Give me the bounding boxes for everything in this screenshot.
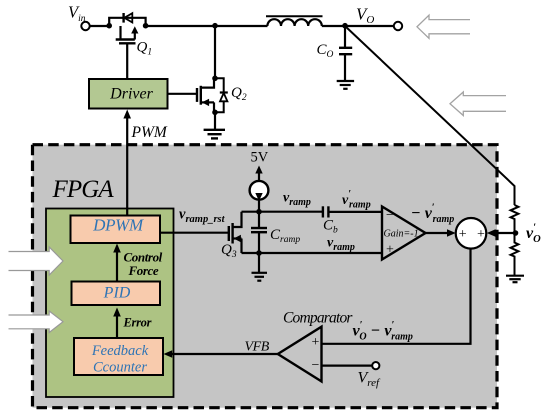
wire Vref to comparator minus: [322, 365, 373, 367]
svg-text:VO: VO: [356, 5, 374, 27]
comparator: [278, 327, 322, 382]
resistor divider upper: [511, 205, 519, 233]
diode D1 bypass: [109, 13, 145, 26]
svg-text:Error: Error: [123, 315, 152, 329]
wire summer to comparator plus: [322, 249, 471, 344]
Driver box: [89, 79, 168, 109]
capacitor Cb: [323, 206, 382, 217]
svg-text:Q2: Q2: [231, 85, 247, 103]
svg-text:Vin: Vin: [68, 3, 86, 25]
svg-text:+: +: [386, 243, 394, 258]
wire comparator output VFB with arrow: [164, 350, 278, 357]
svg-text:+: +: [477, 227, 485, 242]
terminal Vref: [372, 362, 379, 369]
label Control Force: [124, 250, 163, 279]
arrow Control Force (PID to DPWM): [113, 244, 121, 282]
body diode Q2: [215, 78, 228, 112]
current source 5V: [250, 166, 269, 212]
wire driver to Q2 gate: [168, 93, 197, 95]
transistor Q3: [160, 212, 242, 253]
arrow Error (Feedback to PID): [113, 308, 121, 339]
block PID: [72, 282, 161, 306]
junction ramp bottom: [256, 250, 262, 256]
white block arrow into FPGA lower: [9, 311, 64, 333]
junction Vo node: [342, 23, 348, 29]
amplifier Gain=-1: [382, 207, 426, 260]
junction node vo': [513, 230, 519, 236]
junction ramp top: [256, 209, 262, 215]
ground under Q2: [204, 112, 225, 138]
block Feedback Ccounter: [74, 338, 163, 375]
wire Vo node to terminal: [345, 25, 394, 27]
svg-text:Feedback: Feedback: [91, 343, 149, 359]
ground under Co: [337, 81, 354, 89]
block DPWM: [71, 215, 161, 243]
transistor Q1: [116, 26, 139, 78]
svg-text:−: −: [386, 208, 394, 223]
junction: [143, 23, 149, 29]
FPGA box: [33, 145, 498, 408]
wire L to Vo node: [322, 25, 345, 27]
svg-text:VFB: VFB: [245, 340, 270, 355]
wire bottom rail v_ramp: [242, 252, 383, 254]
svg-text:+: +: [459, 227, 467, 242]
wire feedback diagonal: [345, 26, 515, 205]
terminal Vin: [81, 22, 89, 30]
svg-text:Comparator: Comparator: [283, 309, 353, 326]
svg-text:PID: PID: [103, 285, 131, 302]
summing junction: [456, 218, 487, 249]
svg-text:PWM: PWM: [131, 124, 168, 141]
green logic box: [46, 209, 174, 398]
svg-text:DPWM: DPWM: [92, 215, 144, 234]
svg-text:v′O: v′O: [526, 223, 541, 246]
svg-text:CO: CO: [317, 42, 334, 60]
transistor Q2: [197, 26, 218, 115]
capacitor Cramp: [251, 212, 267, 253]
svg-text:Driver: Driver: [109, 86, 153, 103]
ground under Cramp: [252, 253, 268, 281]
svg-text:FPGA: FPGA: [52, 176, 115, 203]
white block arrow into FPGA upper: [9, 247, 64, 275]
capacitor Co: [339, 26, 352, 81]
svg-text:Gain=-1: Gain=-1: [384, 229, 419, 240]
svg-text:Ccounter: Ccounter: [93, 359, 147, 375]
junction switch node: [212, 23, 218, 29]
resistor divider lower: [511, 233, 519, 276]
svg-text:Q1: Q1: [137, 39, 153, 57]
terminal Vo: [394, 22, 402, 30]
svg-text:+: +: [312, 335, 320, 350]
ground under divider: [506, 276, 524, 283]
outline arrow top right 1: [417, 15, 470, 38]
outline arrow top right 2: [450, 92, 506, 116]
junction: [106, 23, 112, 29]
inductor L: [266, 16, 323, 26]
svg-text:−: −: [312, 358, 320, 373]
arrow PWM into driver: [123, 110, 131, 216]
svg-text:5V: 5V: [251, 149, 269, 165]
svg-text:Force: Force: [128, 263, 159, 278]
wire Vin to node: [90, 25, 110, 27]
wire gain output to summer with arrow: [426, 229, 456, 236]
wire top rail v_ramp: [242, 211, 323, 213]
wire node to summer with arrow: [487, 229, 516, 236]
wire switch node rail: [146, 25, 268, 27]
